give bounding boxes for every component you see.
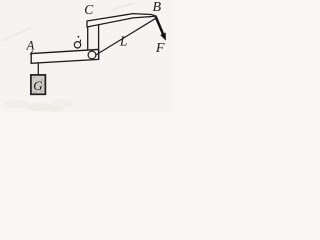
label o (pivot) xyxy=(74,36,80,48)
top beam C-B xyxy=(87,14,157,27)
svg-text:F: F xyxy=(155,41,165,56)
weight box G xyxy=(31,75,46,94)
force arrow F head xyxy=(161,33,166,40)
paper background xyxy=(0,0,171,112)
svg-text:C: C xyxy=(84,2,94,17)
paper smudge top middle xyxy=(112,3,134,10)
weight box texture xyxy=(33,77,45,93)
support post left edge xyxy=(87,27,89,51)
svg-text:L: L xyxy=(119,33,128,48)
rod L xyxy=(96,18,157,55)
pivot circle xyxy=(88,51,96,59)
paper smudge left xyxy=(1,28,31,41)
force arrow F shaft xyxy=(156,17,163,34)
paper mottle bottom left xyxy=(4,99,73,112)
svg-text:B: B xyxy=(153,0,162,15)
svg-text:G: G xyxy=(33,78,43,93)
svg-text:A: A xyxy=(26,39,35,53)
support post right edge xyxy=(98,25,100,60)
hanger wire xyxy=(37,63,39,76)
lever arm A xyxy=(31,49,98,63)
arm corner tick xyxy=(30,51,33,55)
